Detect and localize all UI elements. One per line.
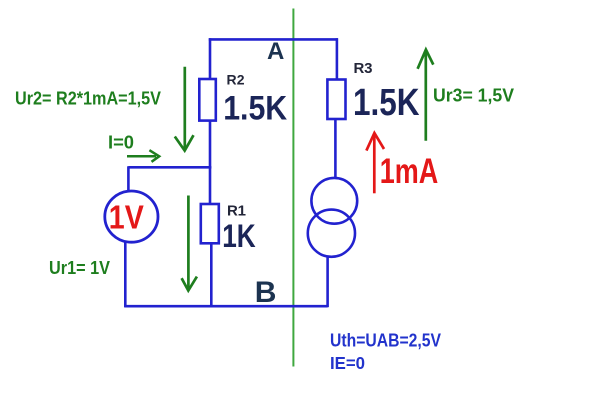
wire: left branch bottom stub bbox=[210, 243, 213, 307]
svg-text:Ur2= R2*1mA=1,5V: Ur2= R2*1mA=1,5V bbox=[15, 89, 161, 109]
svg-text:IE=0: IE=0 bbox=[330, 353, 365, 373]
svg-text:B: B bbox=[255, 276, 277, 309]
wire: middle rail to source bbox=[128, 166, 211, 169]
wire: source bottom stub bbox=[124, 242, 127, 307]
voltage arrow up Ur3 bbox=[418, 50, 434, 141]
wire: bottom rail B bbox=[124, 305, 327, 308]
svg-text:I=0: I=0 bbox=[108, 133, 134, 153]
net divider line (green) bbox=[292, 9, 294, 367]
wire: left branch lower stub bbox=[209, 166, 212, 205]
current arrow down beside R2 bbox=[175, 67, 194, 151]
svg-text:Ur1= 1V: Ur1= 1V bbox=[49, 258, 110, 278]
arrow I=0 pointing right bbox=[127, 150, 159, 162]
wire: left branch mid stub bbox=[209, 121, 212, 169]
wire: top rail A bbox=[209, 38, 338, 41]
resistor R2 bbox=[199, 79, 216, 121]
svg-text:1.5K: 1.5K bbox=[353, 82, 420, 124]
svg-text:Ur3= 1,5V: Ur3= 1,5V bbox=[433, 86, 514, 106]
wire: left branch top stub bbox=[209, 38, 212, 80]
svg-text:1.5K: 1.5K bbox=[223, 90, 287, 128]
svg-text:1V: 1V bbox=[109, 198, 144, 235]
current source I1 upper circle bbox=[311, 178, 357, 224]
svg-text:A: A bbox=[267, 38, 284, 65]
svg-text:R2: R2 bbox=[227, 72, 245, 88]
svg-text:R1: R1 bbox=[227, 203, 246, 220]
resistor R1 bbox=[201, 204, 219, 243]
svg-text:1mA: 1mA bbox=[380, 152, 439, 191]
wire: current source bottom stub bbox=[326, 256, 329, 308]
wire: current source top stub bbox=[334, 119, 337, 179]
voltage source V1 circle bbox=[105, 191, 158, 242]
current arrow down beside R1 bbox=[182, 196, 197, 291]
wire: source top stub bbox=[127, 166, 130, 192]
wire: R3 top stub bbox=[336, 38, 339, 80]
svg-text:R3: R3 bbox=[354, 60, 373, 77]
svg-text:1K: 1K bbox=[222, 218, 256, 254]
current arrow up 1mA (red) bbox=[366, 133, 384, 193]
resistor R3 bbox=[327, 80, 345, 120]
current source I1 lower circle bbox=[308, 210, 355, 257]
svg-text:Uth=UAB=2,5V: Uth=UAB=2,5V bbox=[330, 331, 441, 351]
